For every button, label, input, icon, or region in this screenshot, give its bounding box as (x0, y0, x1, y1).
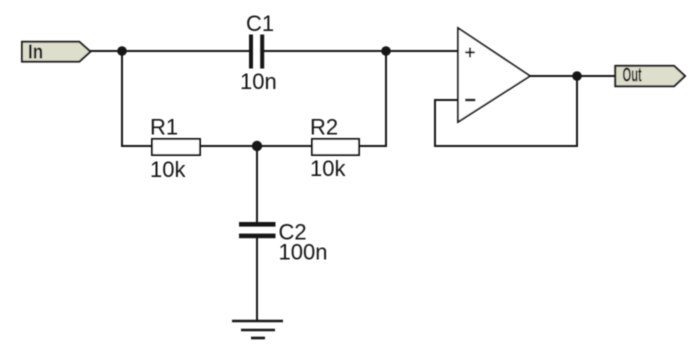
svg-text:Out: Out (623, 64, 643, 86)
node junction dot at C1 right (381, 46, 391, 56)
svg-text:C1: C1 (246, 11, 274, 36)
wire feedback bottom (434, 145, 578, 147)
wire C1 to op-amp + input (264, 50, 458, 52)
wire node C down to C2 (256, 146, 258, 223)
svg-text:100n: 100n (279, 240, 328, 265)
resistor R1 (150, 115, 200, 183)
op-amp U1 (458, 28, 530, 122)
wire In to C1 (89, 50, 250, 52)
svg-text:R2: R2 (310, 115, 338, 140)
wire C2 to ground (256, 237, 258, 321)
svg-text:R1: R1 (150, 115, 178, 140)
wire feedback left vertical (434, 99, 436, 147)
svg-text:10n: 10n (240, 69, 277, 94)
wire op-amp - input (434, 99, 458, 101)
wire R1 right to R2 left (199, 145, 312, 147)
wire feedback right vertical (576, 75, 578, 147)
node junction dot at In (117, 46, 127, 56)
ground (232, 321, 283, 338)
svg-text:10k: 10k (310, 156, 346, 181)
wire R2 right to corner (358, 145, 387, 147)
capacitor C1 (240, 11, 277, 94)
svg-text:In: In (28, 40, 43, 63)
port Out (615, 64, 685, 86)
node junction dot between R1 and R2 (252, 141, 262, 151)
svg-text:10k: 10k (150, 157, 186, 182)
resistor R2 (310, 115, 359, 181)
wire op-amp output to Out (529, 75, 616, 77)
node junction dot at output (572, 71, 582, 81)
port In (22, 40, 90, 63)
wire to R1 left (121, 145, 152, 147)
capacitor C2 (239, 220, 327, 265)
wire corner up to node B (385, 50, 387, 147)
wire node A down (121, 50, 123, 147)
